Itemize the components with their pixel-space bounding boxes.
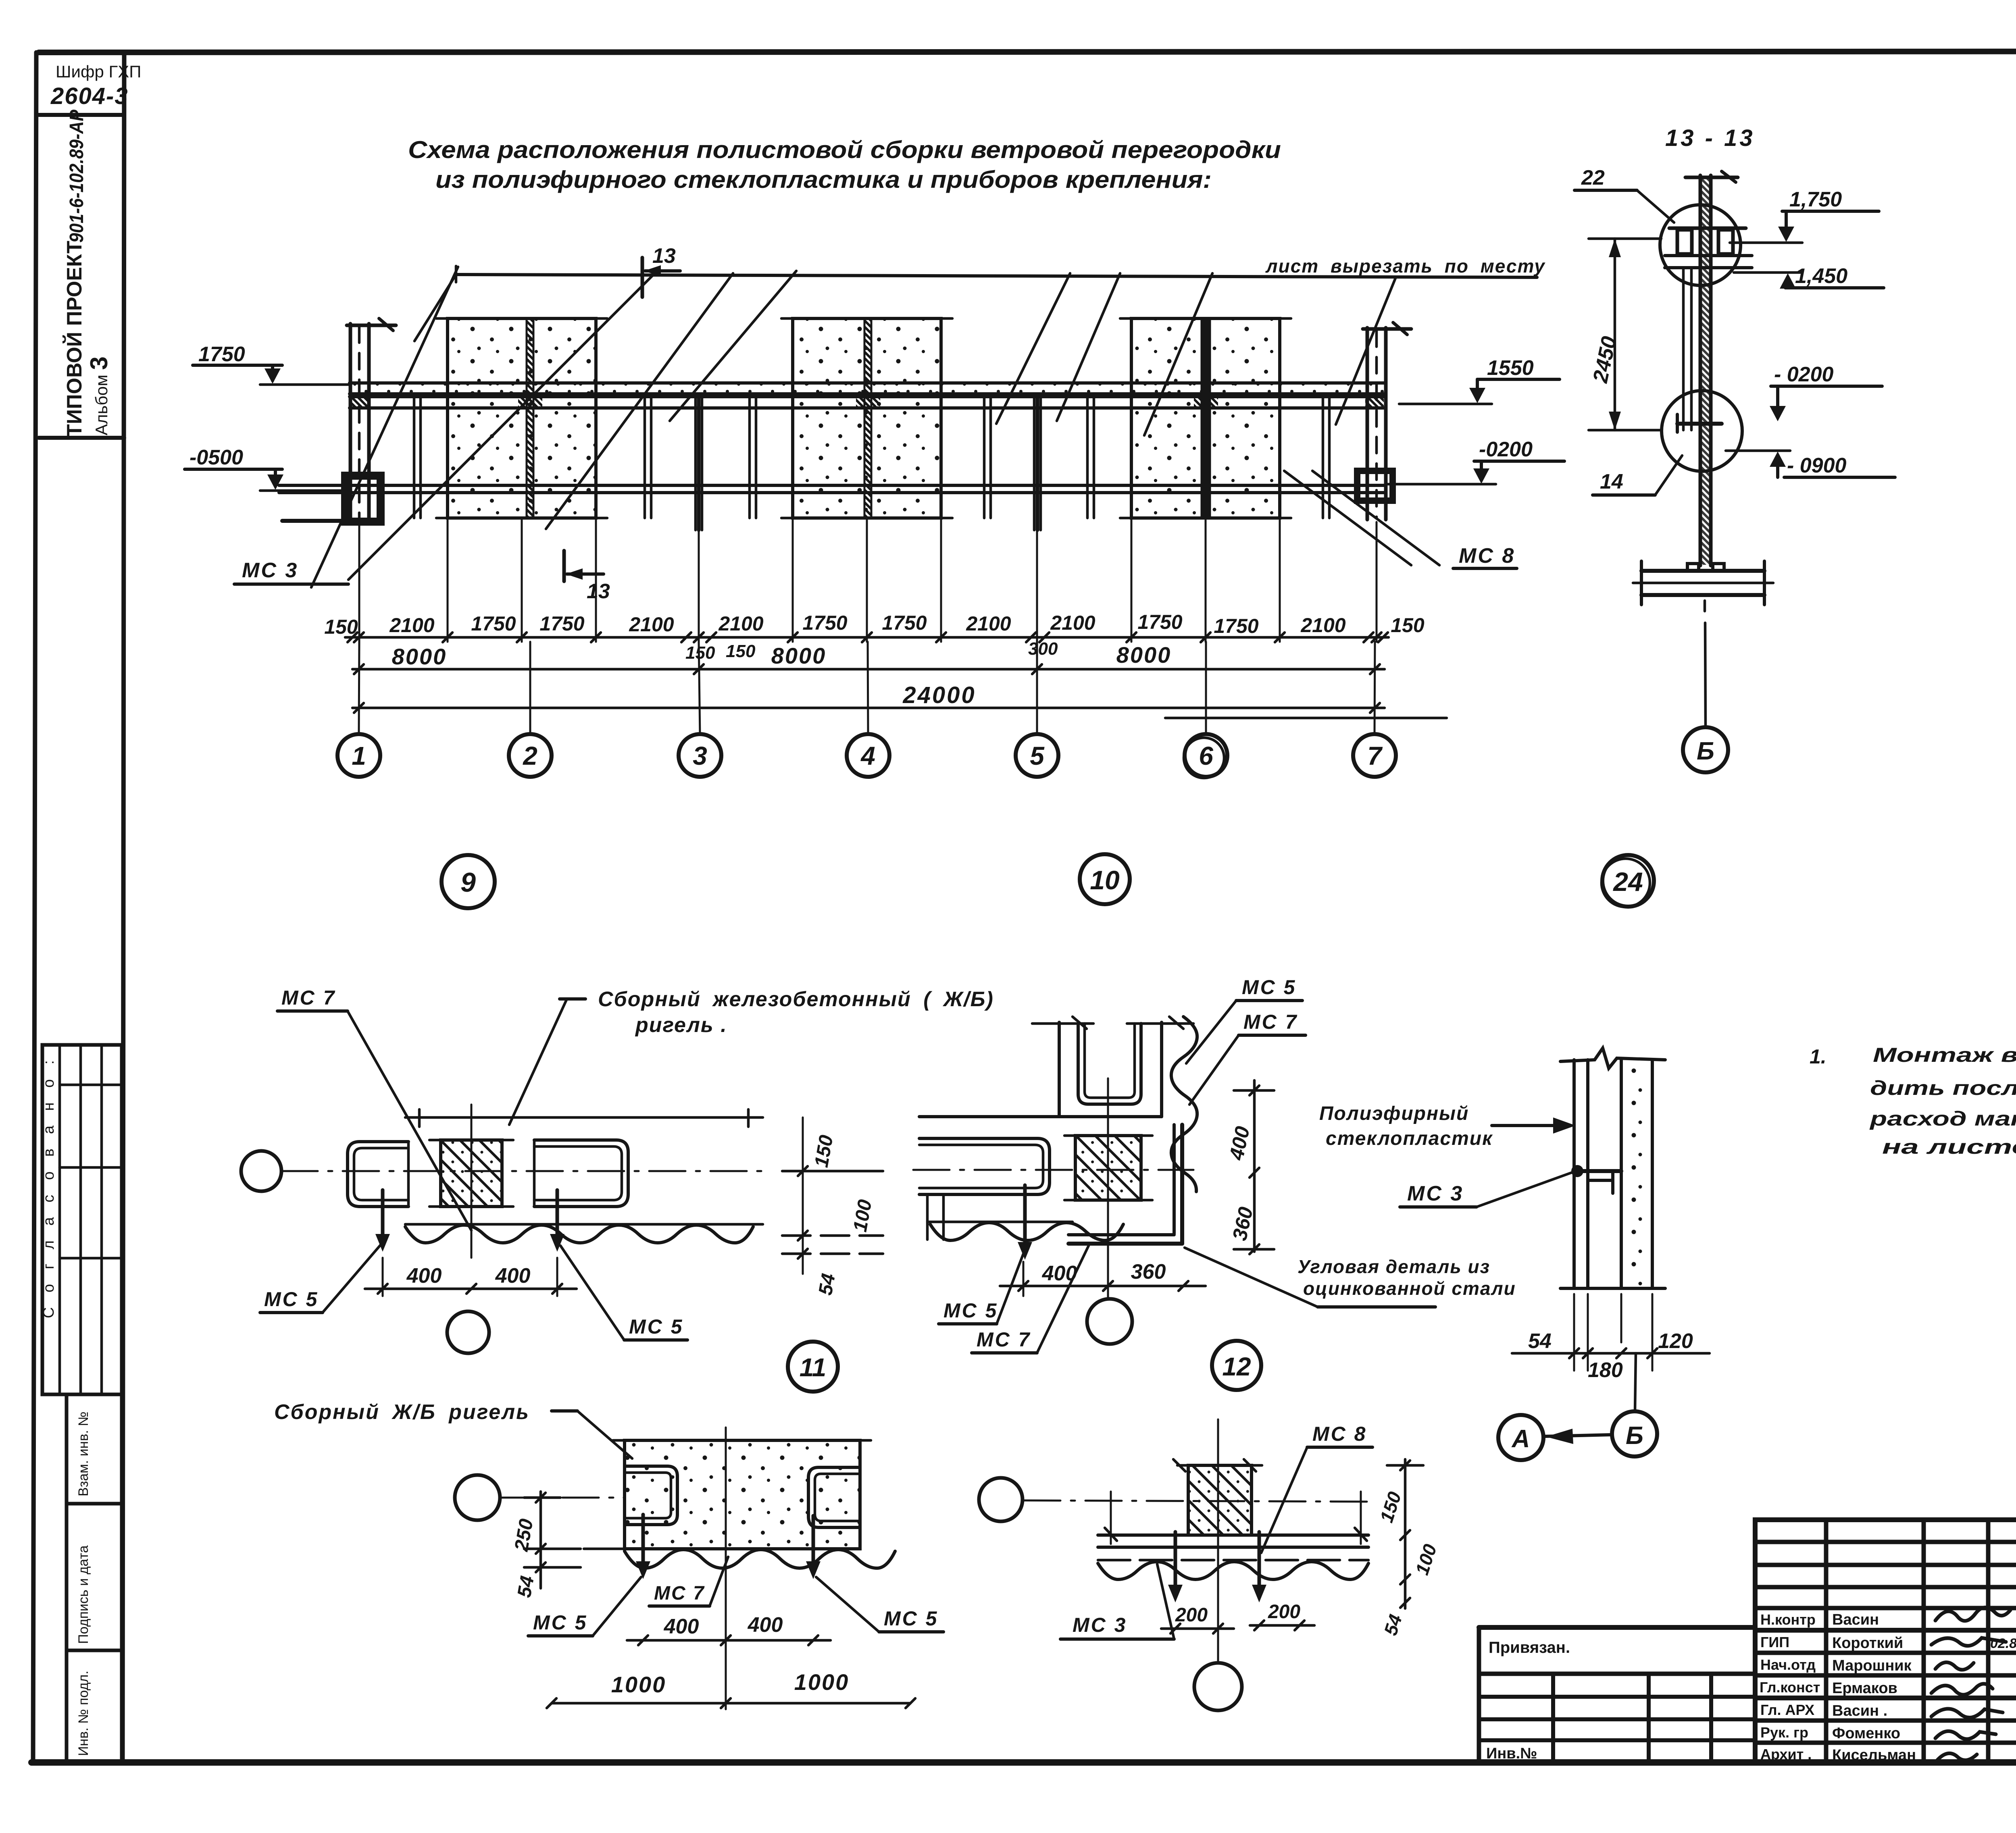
diagonal leaders over elevation bbox=[311, 267, 1439, 587]
svg-text:901-6-102.89-АР: 901-6-102.89-АР bbox=[66, 109, 87, 243]
corrugated sheet (11 section) bbox=[625, 1550, 895, 1568]
svg-text:10: 10 bbox=[1090, 865, 1120, 895]
svg-text:МС 5: МС 5 bbox=[629, 1315, 683, 1338]
МС 5 right (11 section) bbox=[816, 1577, 943, 1632]
стеклопластик arrow bbox=[1319, 1103, 1576, 1149]
svg-text:13 - 13: 13 - 13 bbox=[1665, 125, 1755, 151]
node bubble 12 bbox=[1212, 1341, 1261, 1390]
dims 200 200 (bottom section) bbox=[1161, 1601, 1314, 1633]
svg-text:Полиэфирный: Полиэфирный bbox=[1319, 1103, 1469, 1124]
left dim 1750 bbox=[193, 343, 282, 384]
svg-text:2604-3: 2604-3 bbox=[50, 83, 129, 109]
svg-text:Рук. гр: Рук. гр bbox=[1760, 1724, 1808, 1741]
signature table grid bbox=[1755, 1520, 2016, 1762]
svg-text:Подпись и дата: Подпись и дата bbox=[76, 1545, 91, 1644]
grid bubble bottom (bottom section) bbox=[1194, 1663, 1242, 1710]
svg-text:13: 13 bbox=[587, 580, 610, 603]
band and sheet (bottom section) bbox=[1098, 1492, 1368, 1579]
section mark 13 top bbox=[642, 244, 680, 297]
right dim -0900 (section) bbox=[1726, 451, 1895, 477]
top chord band bbox=[350, 383, 1385, 394]
border top bbox=[39, 51, 2016, 52]
svg-text:ТИПОВОЙ ПРОЕКТ: ТИПОВОЙ ПРОЕКТ bbox=[62, 241, 86, 437]
left C-channel horizontal (12) bbox=[919, 1138, 1050, 1194]
МС 5 bottom-left (12) bbox=[939, 1252, 1024, 1324]
svg-text:дить после установки блоков: дить после установки блоков оросителя; bbox=[1870, 1077, 2016, 1099]
grid bubble 6 bbox=[1184, 734, 1227, 778]
svg-text:-0500: -0500 bbox=[190, 446, 243, 469]
МС 8 label right bbox=[1453, 544, 1517, 568]
concrete panel 3 bbox=[1120, 318, 1291, 518]
label Сборный Ж/Б ригель bbox=[274, 1400, 632, 1458]
svg-text:оцинкованной стали: оцинкованной стали bbox=[1303, 1278, 1516, 1299]
svg-text:Васин .: Васин . bbox=[1832, 1702, 1887, 1719]
right dim 1550 bbox=[1399, 356, 1560, 404]
svg-text:Н.контр: Н.контр bbox=[1760, 1611, 1816, 1628]
grid bubble left (bottom section) bbox=[979, 1478, 1023, 1521]
bolt (12) bbox=[1018, 1185, 1032, 1260]
svg-text:7: 7 bbox=[1367, 741, 1383, 770]
grid bubble left (11 section) bbox=[455, 1475, 500, 1520]
svg-text:2: 2 bbox=[523, 741, 537, 770]
svg-text:2100: 2100 bbox=[1300, 614, 1345, 637]
bottom dim of wall detail bbox=[1512, 1294, 1710, 1382]
beam section (11) bbox=[613, 1440, 871, 1549]
svg-text:- 0200: - 0200 bbox=[1774, 363, 1834, 386]
svg-text:Сборный железобетонный ( Ж/Б): Сборный железобетонный ( Ж/Б) bbox=[598, 988, 994, 1011]
left strip: Взам.инв / Подпись / Инв cells bbox=[67, 1394, 122, 1762]
TITLE BLOCK bbox=[1479, 1520, 2016, 1764]
МС5 label right (11) bbox=[560, 1246, 687, 1340]
svg-text:360: 360 bbox=[1131, 1260, 1166, 1284]
concrete panel 2 bbox=[781, 318, 952, 518]
svg-text:МС 8: МС 8 bbox=[1312, 1423, 1367, 1445]
signature rows labels bbox=[1760, 1611, 1820, 1762]
right foundation box col7 bbox=[1357, 471, 1393, 501]
svg-text:Б: Б bbox=[1626, 1422, 1643, 1450]
SECTION 13-13 bbox=[1574, 125, 1895, 907]
svg-text:1550: 1550 bbox=[1487, 356, 1534, 380]
svg-text:1,750: 1,750 bbox=[1789, 188, 1842, 211]
svg-text:МС 3: МС 3 bbox=[1073, 1614, 1127, 1636]
right dims (11) bbox=[782, 1117, 883, 1297]
svg-text:Фоменко: Фоменко bbox=[1832, 1725, 1900, 1742]
concrete panel 1 bbox=[436, 318, 607, 518]
МС 7 bottom-left (12) bbox=[972, 1246, 1089, 1353]
svg-text:Архит .: Архит . bbox=[1760, 1746, 1812, 1762]
right dim -0200 (section) bbox=[1770, 363, 1882, 421]
svg-text:24000: 24000 bbox=[902, 682, 976, 708]
grid bubble bottom (11) bbox=[447, 1311, 489, 1353]
grid bubble А (wall) bbox=[1498, 1415, 1543, 1460]
svg-text:1.: 1. bbox=[1810, 1045, 1826, 1068]
svg-text:МС 7: МС 7 bbox=[281, 986, 336, 1009]
grid bubble 2 bbox=[509, 734, 552, 777]
svg-text:МС 5: МС 5 bbox=[943, 1299, 998, 1322]
left foundation box col1 bbox=[282, 476, 381, 522]
МС3 bracket on wall bbox=[1571, 1165, 1621, 1193]
hatched column square (11) bbox=[429, 1140, 513, 1207]
svg-text:400: 400 bbox=[664, 1615, 699, 1638]
svg-text:1750: 1750 bbox=[802, 612, 847, 634]
left extension of band bbox=[260, 383, 350, 386]
left strip: Согласовано table bbox=[40, 1045, 122, 1394]
svg-text:МС 7: МС 7 bbox=[1243, 1011, 1298, 1033]
vertical dim 2450 bbox=[1589, 239, 1661, 430]
svg-text:8000: 8000 bbox=[771, 643, 827, 668]
svg-text:2100: 2100 bbox=[629, 613, 674, 636]
right dim -0200 bbox=[1387, 438, 1564, 484]
svg-text:Короткий: Короткий bbox=[1832, 1635, 1903, 1652]
node bubble 11 bbox=[788, 1342, 838, 1392]
hatched column (12) bbox=[1064, 1136, 1152, 1200]
svg-text:Угловая деталь из: Угловая деталь из bbox=[1297, 1256, 1490, 1277]
dim 1000 1000 (11 section) bbox=[547, 1669, 915, 1708]
svg-text:200: 200 bbox=[1268, 1601, 1300, 1623]
svg-text:22: 22 bbox=[1581, 166, 1605, 189]
signatures scribbles bbox=[1931, 1607, 2010, 1760]
svg-text:150: 150 bbox=[1391, 614, 1425, 637]
svg-text:МС 5: МС 5 bbox=[884, 1607, 938, 1630]
svg-text:1750: 1750 bbox=[471, 612, 516, 635]
svg-text:А: А bbox=[1511, 1425, 1530, 1453]
svg-text:12: 12 bbox=[1222, 1352, 1251, 1381]
divider below stamp column bbox=[39, 436, 124, 440]
left end post col1 bbox=[347, 318, 396, 523]
node bubble 9 bbox=[442, 855, 495, 908]
svg-text:лист вырезать по месту: лист вырезать по месту bbox=[1265, 256, 1545, 277]
grid bubble 4 bbox=[847, 734, 889, 777]
svg-text:54: 54 bbox=[815, 1272, 839, 1297]
svg-text:11: 11 bbox=[800, 1353, 826, 1382]
top reference line (лист вырезать по месту) bbox=[456, 275, 1537, 277]
svg-text:Кисельман: Кисельман bbox=[1832, 1747, 1916, 1764]
svg-text:1: 1 bbox=[352, 741, 366, 770]
svg-text:400: 400 bbox=[748, 1613, 783, 1637]
svg-text:54: 54 bbox=[1528, 1329, 1552, 1353]
centerlines (12) bbox=[913, 1169, 1193, 1171]
border left inner column line bbox=[123, 52, 124, 1762]
svg-text:6: 6 bbox=[1199, 741, 1213, 770]
svg-text:2100: 2100 bbox=[1050, 612, 1095, 634]
main post of section bbox=[1685, 171, 1738, 566]
svg-text:200: 200 bbox=[1175, 1604, 1208, 1626]
detail bubble on lower joint bbox=[1662, 391, 1742, 471]
svg-text:Марошник: Марошник bbox=[1832, 1657, 1912, 1674]
svg-text:на листе 9.: на листе 9. bbox=[1882, 1136, 2016, 1158]
label Сборный железобетонный (Ж/Б) ригель bbox=[509, 988, 994, 1125]
bottom edge + wavy (12) bbox=[927, 1194, 1123, 1240]
svg-text:120: 120 bbox=[1658, 1329, 1693, 1353]
svg-text:8000: 8000 bbox=[392, 644, 447, 669]
stem to bubble Б (wall) bbox=[1635, 1353, 1636, 1411]
second chord band bbox=[350, 395, 1385, 398]
svg-text:1750: 1750 bbox=[882, 612, 927, 634]
svg-text:МС 8: МС 8 bbox=[1459, 544, 1515, 568]
svg-text:2100: 2100 bbox=[389, 614, 434, 637]
svg-text:14: 14 bbox=[1600, 470, 1623, 493]
corrugated sheet (11) bbox=[405, 1224, 763, 1243]
svg-text:9: 9 bbox=[460, 867, 476, 898]
right dim 1450 (section) bbox=[1734, 264, 1884, 289]
svg-text:4: 4 bbox=[860, 741, 875, 770]
svg-text:МС 7: МС 7 bbox=[977, 1328, 1031, 1351]
grid bubble 5 bbox=[1016, 734, 1058, 777]
DETAILS 9 10 11 12 bbox=[241, 854, 1516, 1710]
svg-text:400: 400 bbox=[495, 1264, 531, 1288]
left attach part of title block bbox=[1479, 1627, 1755, 1762]
svg-text:5: 5 bbox=[1030, 741, 1045, 770]
wavy sheet vertical (12) bbox=[1171, 1017, 1197, 1192]
МС5 label left (11) bbox=[260, 1245, 381, 1313]
svg-text:-0200: -0200 bbox=[1479, 438, 1533, 461]
svg-text:180: 180 bbox=[1588, 1359, 1623, 1382]
МС 3 label left bbox=[234, 559, 348, 584]
section mark 13 bottom bbox=[564, 551, 610, 603]
lower bracket bbox=[1677, 414, 1722, 432]
grid bubble Б (wall) bbox=[1612, 1411, 1657, 1456]
МС 7 label top-left bbox=[277, 986, 471, 1230]
МС 8 label (bottom section) bbox=[1261, 1423, 1372, 1553]
centerlines detail 11 bbox=[281, 1170, 762, 1172]
center line (11 section) bbox=[725, 1427, 727, 1709]
dim 400 400 (11 section) bbox=[627, 1613, 831, 1645]
lower rail bbox=[279, 484, 1385, 487]
svg-text:- 0900: - 0900 bbox=[1787, 454, 1847, 477]
node bubble 10 bbox=[1080, 854, 1130, 904]
svg-text:стеклопластик: стеклопластик bbox=[1326, 1128, 1493, 1149]
grid bubble 3 bbox=[679, 734, 721, 777]
right dim 1750 (section) bbox=[1730, 188, 1879, 243]
МС 3 label (bottom section) bbox=[1060, 1564, 1174, 1639]
top edge line detail 11 bbox=[405, 1116, 763, 1119]
bolts (11 section) bbox=[636, 1515, 821, 1579]
dim 400 400 (11) bbox=[365, 1258, 577, 1296]
svg-text:150: 150 bbox=[324, 616, 358, 638]
hatch cells in second band bbox=[352, 397, 370, 408]
svg-text:расход материалов см. специф: расход материалов см. спецификацию bbox=[1869, 1107, 2016, 1130]
svg-text:1000: 1000 bbox=[611, 1672, 666, 1697]
label Угловая деталь bbox=[1185, 1248, 1516, 1307]
svg-text:13: 13 bbox=[652, 244, 676, 268]
svg-text:300: 300 bbox=[1028, 639, 1058, 659]
МС 5 left (11 section) bbox=[528, 1577, 641, 1636]
right end post col7 bbox=[1363, 322, 1411, 520]
right C-channel (plan) bbox=[534, 1140, 628, 1207]
posts between panels bbox=[414, 397, 1329, 530]
grid bubble left (11) bbox=[241, 1151, 281, 1191]
svg-text:Инв. № подл.: Инв. № подл. bbox=[76, 1671, 91, 1756]
svg-text:150: 150 bbox=[685, 643, 715, 663]
svg-text:Гл.конст: Гл.конст bbox=[1760, 1679, 1820, 1696]
svg-text:1750: 1750 bbox=[1214, 615, 1258, 637]
МС 3 label (wall) bbox=[1400, 1172, 1572, 1207]
arrow between А and Б bbox=[1545, 1429, 1612, 1444]
ELEVATION bbox=[185, 244, 1564, 778]
stem to bubble Б bbox=[1705, 601, 1706, 727]
svg-text:Инв.№: Инв.№ bbox=[1486, 1745, 1537, 1762]
svg-text:Схема расположения полистово: Схема расположения полистовой сборки вет… bbox=[408, 136, 1281, 163]
extension lines down to dim rows bbox=[359, 520, 1377, 642]
grid bubble 1 bbox=[337, 734, 380, 777]
left dim -0500 bbox=[185, 446, 347, 491]
box divider under code bbox=[39, 113, 124, 117]
svg-text:ригель .: ригель . bbox=[635, 1013, 727, 1037]
upper U-channel (12) bbox=[1032, 1017, 1193, 1117]
svg-text:1,450: 1,450 bbox=[1795, 264, 1847, 288]
svg-text:400: 400 bbox=[406, 1264, 442, 1288]
top-left code box bbox=[39, 62, 141, 438]
svg-text:1750: 1750 bbox=[198, 343, 245, 366]
svg-text:Сборный Ж/Б ригель: Сборный Ж/Б ригель bbox=[274, 1400, 530, 1424]
bolts (11) bbox=[375, 1190, 564, 1252]
svg-text:24: 24 bbox=[1612, 867, 1643, 897]
МС 7 label (11 section) bbox=[649, 1557, 728, 1606]
svg-text:Ермаков: Ермаков bbox=[1832, 1680, 1897, 1697]
svg-text:150: 150 bbox=[726, 641, 756, 661]
svg-text:8000: 8000 bbox=[1116, 642, 1172, 668]
svg-text:МС 3: МС 3 bbox=[1407, 1182, 1464, 1205]
title block outer frame bbox=[1755, 1520, 2016, 1762]
border bottom bbox=[31, 1759, 2016, 1766]
WALL DETAIL A-B bbox=[1319, 1048, 1710, 1460]
svg-text:54: 54 bbox=[514, 1574, 538, 1599]
svg-text:3: 3 bbox=[693, 741, 707, 770]
svg-text:Нач.отд: Нач.отд bbox=[1760, 1656, 1816, 1673]
dims bottom 400 360 (12) bbox=[1000, 1260, 1206, 1296]
dimension row 3 (24000) bbox=[352, 682, 1447, 718]
dims right 400 360 (12) bbox=[1225, 1080, 1274, 1254]
bolts (bottom section) bbox=[1168, 1532, 1266, 1602]
svg-text:1750: 1750 bbox=[1137, 611, 1182, 633]
label 22 bbox=[1574, 166, 1674, 223]
svg-text:МС 5: МС 5 bbox=[533, 1611, 587, 1634]
dims right 150 100 54 (bottom section) bbox=[1376, 1459, 1441, 1638]
dimension row 2 (8000) bbox=[352, 642, 1385, 674]
grid stems bbox=[359, 642, 1375, 734]
svg-text:ГИП: ГИП bbox=[1760, 1634, 1789, 1650]
wall section verticals bbox=[1560, 1048, 1665, 1288]
note text right middle bbox=[1810, 1044, 2016, 1158]
label 14 bbox=[1593, 456, 1682, 495]
svg-text:МС 3: МС 3 bbox=[242, 559, 298, 582]
svg-text:02.89: 02.89 bbox=[1990, 1636, 2016, 1651]
svg-text:МС 5: МС 5 bbox=[1242, 976, 1296, 999]
svg-text:Б: Б bbox=[1697, 737, 1714, 765]
svg-text:Привязан.: Привязан. bbox=[1489, 1639, 1570, 1656]
svg-text:1750: 1750 bbox=[539, 612, 584, 635]
grid bubble Б (section) bbox=[1683, 727, 1728, 772]
grid bubble bottom (12) bbox=[1087, 1299, 1132, 1344]
main drawing title bbox=[408, 136, 1281, 193]
hatched column (bottom section) bbox=[1173, 1459, 1262, 1535]
svg-text:2100: 2100 bbox=[718, 612, 763, 635]
svg-text:Шифр ГХП: Шифр ГХП bbox=[56, 62, 141, 81]
top bracket assembly bbox=[1665, 228, 1752, 430]
svg-text:МС 7: МС 7 bbox=[654, 1583, 705, 1604]
grid bubble 7 bbox=[1353, 734, 1396, 777]
svg-text:Васин: Васин bbox=[1832, 1611, 1879, 1628]
svg-text:из полиэфирного стеклопласти: из полиэфирного стеклопластика и приборо… bbox=[435, 166, 1212, 193]
left dims 250 54 (11 section) bbox=[510, 1492, 581, 1599]
dimension row 1 (segments) bbox=[324, 611, 1425, 663]
svg-text:МС 5: МС 5 bbox=[264, 1288, 319, 1311]
corner angle (12) bbox=[1068, 1125, 1182, 1244]
border left outer bbox=[33, 52, 36, 1762]
svg-text:Монтаж ветровой перегородки: Монтаж ветровой перегородки произво- bbox=[1873, 1044, 2016, 1066]
svg-text:2100: 2100 bbox=[966, 612, 1011, 635]
svg-text:1000: 1000 bbox=[794, 1669, 850, 1695]
node bubble 24 bbox=[1602, 855, 1654, 907]
left C-channel (plan) bbox=[348, 1142, 408, 1207]
beam top line (12) bbox=[919, 1115, 1162, 1118]
base plate of section bbox=[1633, 561, 1773, 605]
МС5 МС7 labels top right (12) bbox=[1186, 976, 1306, 1105]
detail bubble on top joint bbox=[1660, 205, 1741, 285]
svg-text:Гл. АРХ: Гл. АРХ bbox=[1760, 1702, 1814, 1718]
svg-text:Взам. инв. №: Взам. инв. № bbox=[76, 1411, 91, 1496]
